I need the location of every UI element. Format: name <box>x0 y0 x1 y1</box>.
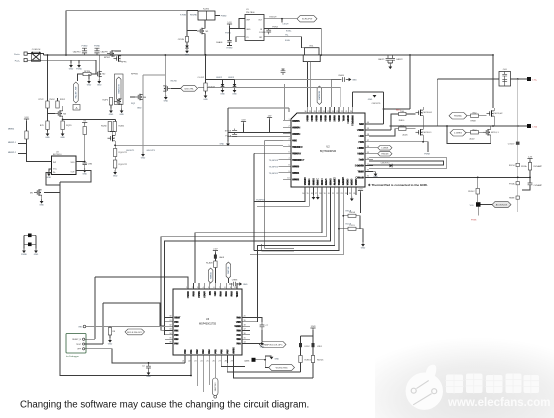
svg-text:REGSRC: REGSRC <box>352 115 355 126</box>
label MBIN4 <box>8 129 15 131</box>
ground U2 pin b12 <box>350 197 354 202</box>
component RVCH <box>509 163 520 167</box>
power 2.2V above U3 <box>213 248 218 252</box>
resistor RQN2 <box>113 122 116 132</box>
wire debugger reset <box>85 338 95 340</box>
wire rppm to gate <box>78 60 97 81</box>
svg-text:GSIO2: GSIO2 <box>216 77 223 79</box>
svg-text:CPA: CPA <box>88 163 93 166</box>
svg-text:P15: P15 <box>214 349 217 354</box>
resistor RVD2 <box>56 101 59 108</box>
svg-text:P2.1: P2.1 <box>225 291 228 297</box>
svg-text:CADPH: CADPH <box>101 51 109 54</box>
svg-text:P2.0: P2.0 <box>220 291 223 297</box>
label RVD2 b <box>60 99 66 101</box>
wire bundle L2 <box>161 195 326 330</box>
connector CAM1 <box>252 358 256 362</box>
label KGN-2 <box>285 40 290 42</box>
label U4 part <box>53 154 62 156</box>
svg-text:VC6B: VC6B <box>347 178 350 185</box>
svg-text:SYS08: SYS08 <box>225 131 232 133</box>
junction pin21 <box>148 362 150 364</box>
svg-text:TS,GPIO2: TS,GPIO2 <box>269 166 279 168</box>
svg-text:GND: GND <box>113 176 118 178</box>
watermark logo circle <box>406 365 443 410</box>
net label TS-GPIO2 <box>269 166 279 168</box>
svg-text:22: 22 <box>341 111 343 113</box>
label MBSPL2 <box>8 152 17 154</box>
svg-text:19: 19 <box>323 193 325 195</box>
wire mid supply drop <box>244 120 270 133</box>
svg-text:SPIE1: SPIE1 <box>292 172 300 175</box>
U2 top pins <box>304 107 354 126</box>
svg-text:GND: GND <box>203 99 208 101</box>
jumper J2 <box>24 243 36 247</box>
svg-text:GNDB: GNDB <box>313 178 316 186</box>
svg-text:XOUT: XOUT <box>203 291 206 298</box>
capacitor CADP10 <box>73 45 88 55</box>
svg-text:1: 1 <box>288 119 289 121</box>
label RVSAMP <box>534 165 543 168</box>
svg-text:CODLY: CODLY <box>508 143 515 145</box>
svg-text:RVD2: RVD2 <box>60 99 66 101</box>
wire m3 up <box>62 106 64 111</box>
svg-text:24: 24 <box>345 193 347 195</box>
svg-text:RGOUT: RGOUT <box>269 17 277 19</box>
svg-text:MCLR.DN.GPC: MCLR.DN.GPC <box>127 332 143 334</box>
svg-text:R-0R2: R-0R2 <box>203 8 210 10</box>
wire mcklh1 drain drop <box>422 115 424 126</box>
svg-text:3.3V: 3.3V <box>241 119 246 121</box>
svg-text:SPIE2: SPIE2 <box>292 178 300 181</box>
svg-text:PACKP_SW: PACKP_SW <box>75 87 78 98</box>
transistor M3 left top <box>55 110 67 116</box>
wire m2 drain up <box>98 55 100 71</box>
svg-text:GND: GND <box>108 344 113 346</box>
gnd arrow right CHN8 <box>239 282 248 286</box>
svg-text:3: 3 <box>197 287 198 289</box>
wire drop x47 to rtv2 <box>47 55 49 101</box>
wire u3 pin27 right a <box>227 363 300 372</box>
ground r1ca <box>361 242 366 250</box>
label RVD2 a <box>49 99 55 101</box>
junction rqout <box>114 144 116 146</box>
net label HSDIAC <box>449 113 467 120</box>
label RGOUT <box>269 17 277 19</box>
resistor RTV2 <box>46 101 49 108</box>
label rppm2 <box>131 74 139 76</box>
power supply x84 <box>82 120 87 124</box>
svg-text:TS,GPIO1: TS,GPIO1 <box>269 173 279 175</box>
svg-text:30: 30 <box>304 111 306 113</box>
svg-text:MCKLL1: MCKLL1 <box>424 132 433 134</box>
svg-text:HSNE: HSNE <box>509 198 515 200</box>
diode GSIO2 <box>221 84 225 87</box>
capacitor CADP2 <box>390 55 403 63</box>
svg-text:21: 21 <box>182 361 184 363</box>
wire mcklh1 top <box>422 107 424 110</box>
svg-text:19: 19 <box>244 320 246 322</box>
wire swclk stub <box>227 279 229 284</box>
net label TS-SPIO <box>256 200 266 202</box>
wire box edge above U2 <box>284 84 286 120</box>
svg-text:GND: GND <box>109 114 114 116</box>
net label SWCLK vertical <box>226 262 231 279</box>
junction bus x410 <box>409 54 411 56</box>
net label HSD08 <box>378 151 392 156</box>
junction long a <box>477 177 479 179</box>
ground jumper gnd <box>34 249 39 257</box>
wire q pair stubs <box>112 51 121 57</box>
svg-text:DSGC: DSGC <box>317 178 320 185</box>
svg-text:24: 24 <box>332 111 334 113</box>
wire ch1 drop <box>436 79 438 126</box>
svg-text:SPIE0: SPIE0 <box>292 165 300 168</box>
svg-text:18: 18 <box>319 193 321 195</box>
label RTV2 <box>38 99 44 101</box>
svg-text:35: 35 <box>367 152 369 154</box>
svg-text:P40: P40 <box>236 334 241 337</box>
junction bus x206 <box>205 54 207 56</box>
U2 right pins <box>355 122 373 179</box>
label for Debugger <box>66 355 79 358</box>
label GSOUT2 <box>126 150 135 152</box>
svg-text:MBSPL2: MBSPL2 <box>8 152 17 154</box>
wire rqout gnd stub <box>114 157 116 171</box>
label ALD6 <box>402 134 408 137</box>
svg-text:31: 31 <box>367 176 369 178</box>
wire rlad8 down <box>214 268 216 284</box>
svg-text:PGND: PGND <box>221 16 227 18</box>
svg-text:CHN8: CHN8 <box>232 280 238 282</box>
svg-text:for Debugger: for Debugger <box>66 355 79 358</box>
svg-text:SWCLK: SWCLK <box>228 266 230 274</box>
diode DFVIN <box>185 46 189 49</box>
svg-text:RQN2: RQN2 <box>119 126 125 128</box>
capacitor SYS08 <box>225 130 237 137</box>
svg-text:LRD1: LRD1 <box>317 346 323 348</box>
wire mcdh2 bot <box>493 116 495 126</box>
resistor MBOUT <box>25 131 28 139</box>
component PVDA <box>509 182 519 186</box>
svg-text:GND: GND <box>34 254 39 256</box>
resistor RPUP <box>83 127 86 135</box>
net label inside tall box <box>117 77 122 101</box>
wire u1 row3 <box>264 37 305 48</box>
wire rqp0 link <box>111 104 122 108</box>
label RQP0 <box>103 100 109 102</box>
wire row y119 <box>63 119 116 121</box>
wire bundle L1 <box>195 195 322 283</box>
ground jumper pgnd <box>21 249 27 257</box>
svg-text:SDAB: SDAB <box>330 178 333 185</box>
svg-text:ASIOM: ASIOM <box>292 126 300 129</box>
svg-text:SWDIO: SWDIO <box>210 272 212 279</box>
svg-text:NC20: NC20 <box>234 325 241 328</box>
U2 bottom pins <box>302 177 358 195</box>
wire gsio long rail to pin <box>235 80 332 108</box>
svg-text:COM-CH: COM-CH <box>32 49 41 51</box>
junction long b <box>517 177 519 179</box>
svg-text:RQP0: RQP0 <box>103 100 109 102</box>
wire rpup down <box>84 125 86 162</box>
wire r60 feed <box>391 114 399 130</box>
svg-text:LT1+: LT1+ <box>533 80 538 82</box>
junction cmost <box>383 108 385 110</box>
svg-text:7: 7 <box>288 158 289 160</box>
svg-text:SRN2: SRN2 <box>338 115 341 122</box>
junction pin22 <box>190 375 192 377</box>
resistor CFVIN <box>178 37 189 43</box>
label RQOUT2 <box>119 164 128 166</box>
test point circle RE1 <box>79 325 86 328</box>
capacitor C7 right of U3 <box>260 322 269 330</box>
svg-text:RC8: RC8 <box>174 325 180 328</box>
op-amp U3 MCU MSP430 <box>173 289 242 355</box>
power 3.3V mid <box>241 119 246 123</box>
wire swdio stub <box>209 282 210 284</box>
resistor RL2 <box>471 129 479 134</box>
label U1 part <box>246 12 255 14</box>
resistor CRLED <box>299 356 312 363</box>
svg-text:RLED1: RLED1 <box>317 360 324 362</box>
svg-text:CVSAMP: CVSAMP <box>534 184 543 187</box>
svg-text:LDB08: LDB08 <box>381 148 388 150</box>
svg-text:27: 27 <box>219 361 221 363</box>
wire sense srp <box>307 62 309 107</box>
svg-text:CFVIN: CFVIN <box>178 39 185 41</box>
svg-text:26: 26 <box>212 361 214 363</box>
transistor MCKLH1 <box>416 110 433 116</box>
svg-text:1: 1 <box>186 287 187 289</box>
svg-text:2: 2 <box>192 287 193 289</box>
svg-text:GND: GND <box>164 101 169 103</box>
ground c7 <box>260 341 265 349</box>
svg-text:RVDHD: RVDHD <box>190 15 198 17</box>
svg-text:20: 20 <box>328 193 330 195</box>
svg-text:3.3V: 3.3V <box>358 188 363 190</box>
svg-text:www.elecfans.com: www.elecfans.com <box>447 397 550 409</box>
svg-text:22: 22 <box>188 361 190 363</box>
wire cfvin stub <box>186 31 188 46</box>
svg-text:39: 39 <box>367 128 369 130</box>
wire inch4 vertical <box>164 55 166 85</box>
wire choke to bus <box>41 54 44 56</box>
svg-text:P13: P13 <box>202 349 205 354</box>
svg-text:TCK2W: TCK2W <box>292 152 302 155</box>
ground r8 <box>108 338 113 346</box>
label PGND u1 <box>225 33 231 35</box>
wire mckll1 top <box>422 126 424 130</box>
svg-text:GSOUT3: GSOUT3 <box>147 150 156 152</box>
svg-text:ALRT2: ALRT2 <box>334 177 337 186</box>
label KGN-1 <box>286 31 292 33</box>
junction vdd cap <box>84 161 86 163</box>
svg-text:MBSPL1: MBSPL1 <box>8 142 17 144</box>
net label TS-GPIO3 <box>269 160 279 162</box>
wire debugger test <box>85 343 103 345</box>
svg-text:Pack+: Pack+ <box>14 54 21 56</box>
wire rvdl2 branch <box>477 177 479 202</box>
net label RSDA blue <box>346 223 352 226</box>
svg-text:MCKLH1: MCKLH1 <box>424 112 433 114</box>
svg-text:RQOUT2: RQOUT2 <box>119 164 128 166</box>
svg-text:1.2V: 1.2V <box>528 156 533 158</box>
svg-text:34: 34 <box>367 158 369 160</box>
svg-text:RSCA: RSCA <box>346 210 352 213</box>
svg-text:GND: GND <box>97 85 102 87</box>
svg-text:9: 9 <box>288 171 289 173</box>
svg-text:PMBPVDD.DK.UPC: PMBPVDD.DK.UPC <box>263 344 283 346</box>
LED LRD2 <box>299 343 311 348</box>
svg-text:VC2B: VC2B <box>320 115 323 122</box>
wire mcdl1 top <box>490 126 492 130</box>
svg-text:IDGCTRL: IDGCTRL <box>184 88 194 90</box>
svg-text:P12: P12 <box>196 349 199 354</box>
svg-text:23: 23 <box>340 193 342 195</box>
gnd arrow in cmost loop <box>368 92 377 101</box>
svg-text:BQ76920RSM: BQ76920RSM <box>320 150 336 153</box>
wire M1 drain to shunt <box>204 20 206 28</box>
svg-text:RPP6: RPP6 <box>121 62 127 64</box>
wire u2 scl row <box>257 195 309 206</box>
wire left vertical x228 <box>227 108 229 141</box>
ground dfvin <box>185 49 190 57</box>
svg-text:21: 21 <box>345 111 347 113</box>
svg-text:18: 18 <box>244 324 246 326</box>
svg-text:ITXND: ITXND <box>227 48 234 50</box>
svg-text:20: 20 <box>350 111 352 113</box>
svg-text:PGN3: PGN3 <box>272 26 278 28</box>
ground arrow cam <box>270 357 280 361</box>
net label vertical above U2 <box>317 86 322 105</box>
wire jumper loop <box>24 235 36 248</box>
svg-text:SCLB: SCLB <box>325 178 328 185</box>
svg-text:KTVIN: KTVIN <box>180 15 186 17</box>
junction c1o1 feed <box>338 228 340 230</box>
wire pill1 stub <box>369 147 378 149</box>
debug header box for Debugger <box>66 334 86 354</box>
svg-text:HSD8: HSD8 <box>357 153 364 156</box>
ground u4 vcc <box>47 172 52 180</box>
resistor RLAD8 <box>214 261 217 268</box>
svg-text:GSIO3: GSIO3 <box>228 77 235 79</box>
wire m6 feed <box>130 96 135 98</box>
svg-text:ALD6: ALD6 <box>402 134 408 137</box>
svg-text:32: 32 <box>367 170 369 172</box>
wire bus drop x493 <box>492 55 494 108</box>
svg-text:CADP10: CADP10 <box>73 51 82 54</box>
svg-text:P2.2: P2.2 <box>231 291 234 297</box>
svg-text:RH08: RH08 <box>470 121 476 123</box>
wire left tall vertical <box>60 182 191 376</box>
resistor RQOUT2 <box>113 160 116 168</box>
svg-text:24: 24 <box>200 361 202 363</box>
wire bundle L6 <box>250 195 343 255</box>
net label TS-GPIO1 <box>269 173 279 175</box>
wire pgnd stub 78 <box>78 60 80 63</box>
ground bus GND <box>69 63 74 71</box>
transistor M6 small <box>135 94 147 100</box>
watermark url text <box>447 397 550 409</box>
label red right of loop <box>396 109 402 112</box>
op-amp U1 regulator box <box>245 15 264 41</box>
svg-text:BAT+: BAT+ <box>396 109 402 112</box>
svg-text:14: 14 <box>302 193 304 195</box>
label CIOUT <box>282 23 289 25</box>
wire u4 vcc gnd <box>49 169 52 172</box>
svg-text:P17: P17 <box>226 349 229 354</box>
svg-text:GSOUT1: GSOUT1 <box>126 150 135 152</box>
ground bus PGND <box>76 63 82 71</box>
transistor M2 <box>94 71 106 77</box>
svg-text:MSP430G2755: MSP430G2755 <box>199 322 217 325</box>
svg-text:26: 26 <box>323 111 325 113</box>
svg-text:RVCH: RVCH <box>509 165 515 167</box>
svg-text:6: 6 <box>213 287 214 289</box>
wire left row y132 dark <box>228 131 291 133</box>
ground rqp0 a <box>109 109 114 117</box>
label BYD <box>40 125 45 127</box>
svg-text:P11: P11 <box>190 349 193 354</box>
svg-text:HSDIAC: HSDIAC <box>454 115 463 118</box>
wire gsout3 <box>142 75 144 152</box>
wire m2 gnd stubs <box>89 74 99 79</box>
svg-text:GND: GND <box>260 347 265 349</box>
connector Pack- open square <box>24 59 27 62</box>
capacitor CPA <box>83 163 93 166</box>
box tall narrow with pill <box>115 74 124 105</box>
svg-text:P14: P14 <box>208 349 211 354</box>
svg-text:RPPM2: RPPM2 <box>131 74 139 76</box>
svg-text:23: 23 <box>194 361 196 363</box>
wire u1 left pins <box>239 19 245 29</box>
wire mcklh1 drain line <box>390 125 528 127</box>
wire 1.2v down <box>230 26 246 29</box>
wire gray row y143 loop <box>262 140 295 251</box>
svg-text:RHD0: RHD0 <box>399 120 405 122</box>
svg-text:CMOSTO: CMOSTO <box>381 163 390 165</box>
svg-text:8: 8 <box>288 165 289 167</box>
transistor MCKLL1 <box>416 129 433 135</box>
svg-text:GND: GND <box>373 176 378 178</box>
svg-text:LDB8: LDB8 <box>357 147 364 150</box>
junction m3 rqp0 <box>62 119 64 121</box>
svg-text:3.3V: 3.3V <box>24 117 29 119</box>
svg-text:38: 38 <box>367 134 369 136</box>
transistor MCD-H2 <box>487 110 504 116</box>
svg-text:VSS2B: VSS2B <box>304 177 307 185</box>
svg-text:PGND: PGND <box>94 45 100 47</box>
svg-text:WCRD-HN1: WCRD-HN1 <box>276 367 289 369</box>
svg-text:33: 33 <box>367 164 369 166</box>
svg-text:CSPIN: CSPIN <box>292 120 300 123</box>
wire sys08 join <box>234 129 236 131</box>
svg-text:PGND: PGND <box>76 69 82 71</box>
svg-text:KGN-: KGN- <box>285 40 290 42</box>
wire r62 gate <box>467 115 487 117</box>
wire pack+ to choke <box>27 53 31 55</box>
svg-text:VC8B: VC8B <box>355 178 358 185</box>
transistor M5 <box>30 189 42 195</box>
wire rsca right <box>356 216 360 229</box>
power supply mid2 <box>267 115 272 119</box>
svg-text:VC4B: VC4B <box>311 115 314 122</box>
svg-text:14V: 14V <box>268 115 272 117</box>
ground rqout <box>113 170 118 178</box>
svg-text:RQOUT1: RQOUT1 <box>119 152 128 154</box>
svg-text:SAD: SAD <box>359 159 364 162</box>
